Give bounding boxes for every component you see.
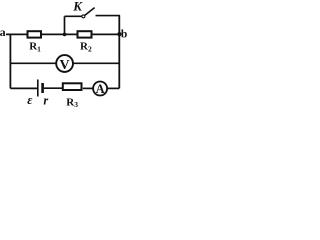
node b junction dot [117, 32, 121, 36]
wire left rail from node a down to bottom-left corner [9, 34, 11, 88]
wire middle branch from left rail to voltmeter [10, 62, 56, 64]
switch K pivot contact circle [82, 15, 85, 18]
svg-text:r: r [43, 93, 48, 107]
resistor R2 [78, 31, 92, 37]
battery plate long (positive) [37, 80, 39, 97]
wire bottom from left corner to battery [10, 87, 37, 89]
wire battery to R3 [44, 87, 62, 89]
wire switch branch right segment to rail [96, 15, 121, 17]
wire right rail from bottom corner up to switch level [118, 15, 120, 88]
wire R1 to R2 [42, 33, 77, 35]
wire stub up from R1-R2 junction to switch branch [64, 16, 66, 34]
switch K blade [85, 8, 95, 16]
wire R2 to node b [93, 33, 120, 35]
wire R3 to ammeter [83, 87, 93, 89]
svg-text:K: K [72, 0, 83, 13]
svg-text:b: b [121, 29, 127, 41]
junction node between R1 and R2 [63, 33, 67, 37]
voltmeter V [56, 55, 73, 72]
ammeter A [93, 82, 107, 96]
resistor R1 [28, 31, 42, 37]
wire node a to R1 [6, 33, 27, 35]
svg-text:V: V [60, 58, 70, 73]
wire ammeter to bottom-right corner [107, 87, 119, 89]
battery plate short (negative) [41, 83, 44, 93]
svg-text:ε: ε [27, 93, 33, 107]
svg-text:a: a [0, 25, 6, 39]
wire switch branch left segment [65, 15, 82, 17]
wire voltmeter to right rail [73, 62, 119, 64]
resistor R3 [63, 83, 82, 90]
svg-text:A: A [96, 82, 105, 96]
